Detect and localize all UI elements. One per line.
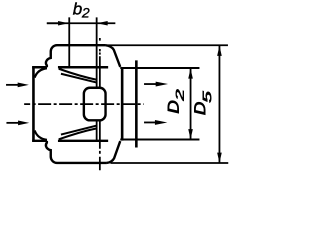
svg-text:D: D bbox=[191, 101, 209, 115]
svg-text:b: b bbox=[73, 0, 82, 19]
svg-text:5: 5 bbox=[199, 90, 214, 104]
svg-text:2: 2 bbox=[173, 89, 187, 103]
svg-text:D: D bbox=[164, 100, 182, 114]
svg-text:2: 2 bbox=[81, 4, 90, 20]
